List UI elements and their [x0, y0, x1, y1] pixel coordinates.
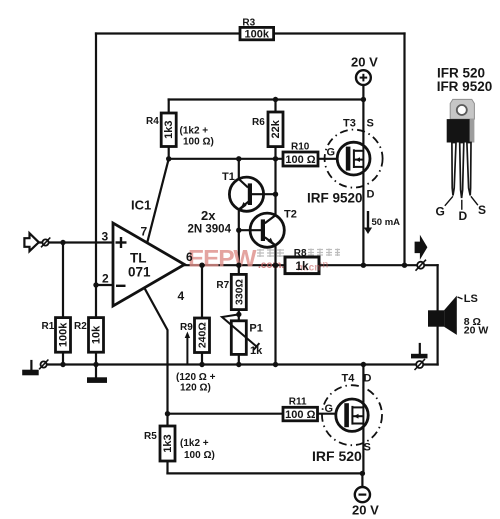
svg-text:330Ω: 330Ω: [233, 279, 245, 305]
svg-text:R10: R10: [291, 142, 310, 153]
svg-text:100 Ω): 100 Ω): [183, 137, 214, 148]
svg-text:TL: TL: [130, 251, 147, 266]
svg-text:1k3: 1k3: [163, 121, 175, 139]
svg-text:R8: R8: [294, 248, 307, 259]
svg-text:S: S: [478, 203, 486, 217]
svg-text:1k3: 1k3: [162, 434, 174, 452]
svg-text:R5: R5: [144, 431, 157, 442]
svg-text:EEPW: EEPW: [188, 246, 257, 273]
svg-text:071: 071: [128, 265, 151, 280]
svg-text:6: 6: [186, 250, 193, 264]
svg-text:R3: R3: [242, 18, 255, 29]
svg-text:120 Ω): 120 Ω): [180, 383, 211, 394]
svg-text:IRF 520: IRF 520: [312, 448, 362, 464]
svg-text:2: 2: [102, 272, 109, 286]
svg-text:R2: R2: [74, 321, 87, 332]
svg-text:1k: 1k: [250, 345, 263, 357]
svg-text:240Ω: 240Ω: [197, 322, 209, 348]
svg-text:T1: T1: [222, 171, 235, 183]
svg-text:20 V: 20 V: [352, 503, 379, 518]
svg-text:R6: R6: [252, 117, 265, 128]
svg-text:T2: T2: [284, 209, 297, 221]
svg-text:R1: R1: [42, 321, 55, 332]
svg-text:R9: R9: [180, 322, 193, 333]
svg-text:(1k2 +: (1k2 +: [180, 438, 209, 449]
svg-text:100k: 100k: [245, 29, 270, 41]
svg-text:T3: T3: [343, 118, 356, 130]
svg-text:IC1: IC1: [131, 198, 151, 213]
svg-text:7: 7: [141, 225, 148, 239]
svg-text:2x: 2x: [201, 208, 216, 223]
svg-text:50 mA: 50 mA: [372, 217, 401, 228]
svg-text:10k: 10k: [91, 325, 103, 344]
svg-text:4: 4: [178, 289, 185, 303]
svg-text:G: G: [436, 205, 445, 219]
svg-text:IRF 9520: IRF 9520: [307, 191, 363, 206]
svg-text:100 Ω): 100 Ω): [184, 450, 215, 461]
svg-text:G: G: [325, 403, 334, 415]
svg-text:S: S: [367, 118, 374, 130]
svg-text:20 W: 20 W: [464, 325, 489, 337]
svg-text:20 V: 20 V: [351, 55, 378, 70]
svg-text:T4: T4: [342, 373, 356, 385]
svg-text:G: G: [327, 147, 336, 159]
svg-text:(120 Ω +: (120 Ω +: [176, 372, 216, 383]
svg-text:D: D: [459, 209, 468, 223]
svg-text:R4: R4: [146, 116, 159, 127]
svg-text:100k: 100k: [58, 322, 70, 347]
svg-text:IFR 9520: IFR 9520: [437, 79, 493, 94]
svg-text:P1: P1: [249, 323, 262, 335]
svg-text:(1k2 +: (1k2 +: [180, 126, 209, 137]
svg-text:100 Ω: 100 Ω: [285, 154, 315, 166]
svg-text:3: 3: [102, 230, 109, 244]
svg-text:1k: 1k: [295, 259, 309, 273]
svg-text:2N 3904: 2N 3904: [188, 224, 232, 236]
svg-text:D: D: [367, 189, 375, 201]
svg-text:100 Ω: 100 Ω: [285, 409, 315, 421]
svg-text:R11: R11: [289, 397, 307, 408]
svg-text:R7: R7: [216, 280, 229, 291]
svg-text:22k: 22k: [270, 119, 282, 138]
svg-text:S: S: [364, 442, 371, 454]
svg-text:D: D: [364, 373, 372, 385]
svg-text:LS: LS: [464, 293, 478, 305]
